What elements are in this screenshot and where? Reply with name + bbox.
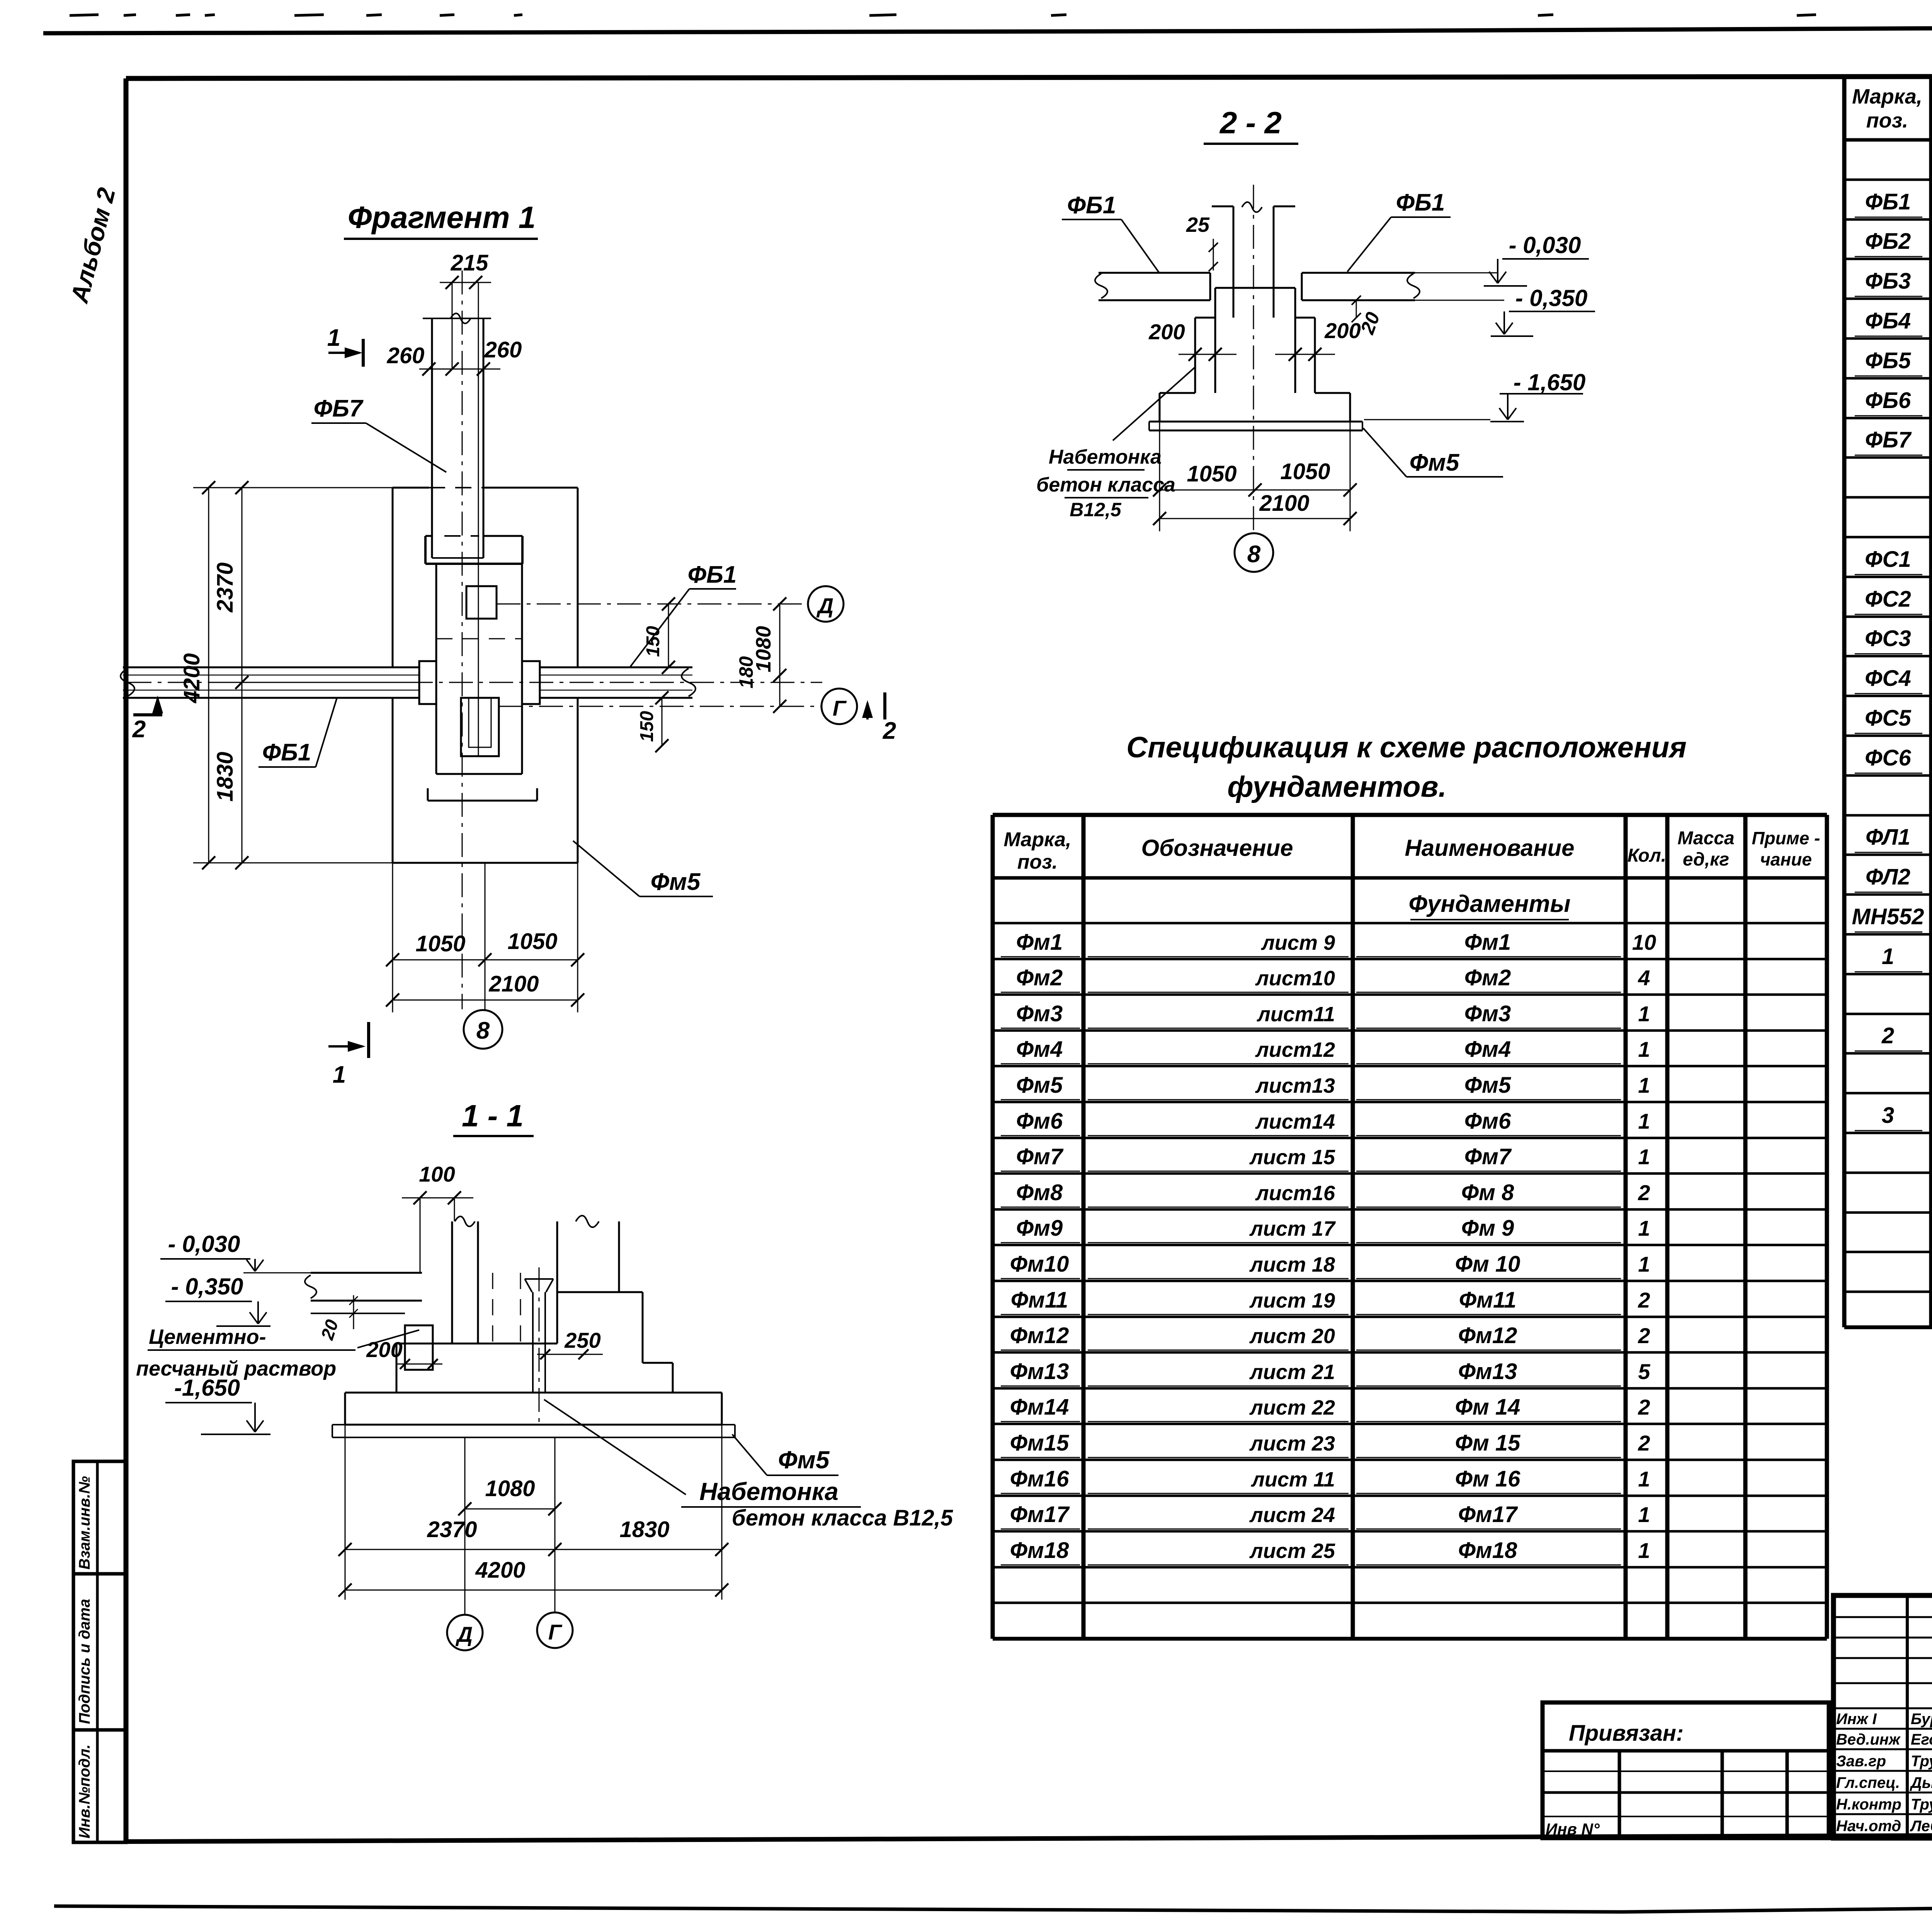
svg-text:Фм6: Фм6 — [1016, 1109, 1063, 1134]
plan: center axes dash-dot — [128, 270, 822, 1009]
privyazan box — [1543, 1702, 1829, 1838]
svg-text:Вед.инж: Вед.инж — [1836, 1731, 1901, 1748]
svg-text:Спецификация к схеме распо: Спецификация к схеме расположения — [1126, 731, 1687, 764]
svg-text:1: 1 — [327, 325, 340, 351]
svg-text:песчаный раствор: песчаный раствор — [136, 1357, 336, 1380]
svg-text:Егоров: Егоров — [1911, 1731, 1932, 1748]
plan: dim 215 — [440, 250, 491, 289]
svg-text:Фм17: Фм17 — [1458, 1502, 1518, 1527]
svg-text:Фм8: Фм8 — [1016, 1180, 1063, 1205]
svg-text:Фм2: Фм2 — [1016, 965, 1063, 990]
svg-text:260: 260 — [387, 343, 425, 368]
svg-text:ФБ4: ФБ4 — [1865, 308, 1911, 333]
svg-text:- 0,030: - 0,030 — [168, 1231, 240, 1257]
svg-text:ФБ1: ФБ1 — [262, 739, 311, 766]
svg-text:Фм 15: Фм 15 — [1455, 1430, 1521, 1456]
svg-text:Трубникова: Трубникова — [1911, 1753, 1932, 1770]
svg-text:лист 23: лист 23 — [1249, 1432, 1335, 1455]
svg-text:1: 1 — [1638, 1538, 1650, 1563]
svg-text:Фм 8: Фм 8 — [1461, 1180, 1514, 1205]
svg-text:180: 180 — [735, 656, 757, 689]
svg-text:Подпись и дата: Подпись и дата — [76, 1599, 93, 1724]
svg-text:260: 260 — [484, 337, 522, 362]
svg-text:Фм 14: Фм 14 — [1455, 1395, 1520, 1420]
section 2-2 level -1.650 — [1364, 369, 1585, 422]
svg-text:ед,кг: ед,кг — [1683, 849, 1729, 870]
svg-text:200: 200 — [366, 1337, 402, 1362]
svg-text:поз.: поз. — [1017, 851, 1058, 873]
svg-text:100: 100 — [419, 1162, 455, 1186]
svg-text:5: 5 — [1638, 1359, 1650, 1384]
svg-text:Фм12: Фм12 — [1458, 1323, 1517, 1348]
section 1-1 base slab — [345, 1393, 722, 1425]
svg-text:Набетонка: Набетонка — [1049, 446, 1162, 468]
svg-text:4200: 4200 — [475, 1558, 525, 1583]
left margin stamp strip boxes — [73, 1461, 126, 1842]
svg-text:2: 2 — [1638, 1431, 1650, 1455]
svg-text:Фм1: Фм1 — [1016, 930, 1063, 955]
svg-text:1050: 1050 — [1280, 459, 1330, 484]
svg-text:Лебедев: Лебедев — [1910, 1818, 1932, 1835]
middle table row: Фундаменты — [1408, 891, 1570, 920]
svg-text:бетон класса: бетон класса — [1036, 474, 1175, 496]
svg-text:ФС6: ФС6 — [1865, 745, 1911, 770]
section 2-2 dims 200 200 — [1148, 318, 1361, 361]
svg-text:Набетонка: Набетонка — [699, 1478, 838, 1505]
section 2-2 label Фм5 — [1363, 428, 1503, 477]
plan: column pier — [428, 564, 537, 801]
svg-text:ФБ6: ФБ6 — [1865, 388, 1911, 413]
svg-text:Фм 16: Фм 16 — [1455, 1466, 1521, 1492]
section 2-2 axis circle 8 — [1235, 533, 1273, 572]
section 2-2 label ФБ1 right — [1347, 189, 1451, 272]
section 2-2 column beams ФБ1 — [1212, 185, 1295, 533]
svg-text:Фм3: Фм3 — [1016, 1001, 1063, 1026]
svg-text:1: 1 — [1638, 1467, 1650, 1491]
right specification table grid — [1844, 76, 1932, 1345]
middle table grid — [993, 815, 1827, 1639]
section 1-1 title — [453, 1099, 534, 1136]
title block frame — [1833, 1595, 1932, 1838]
svg-text:2: 2 — [883, 718, 896, 744]
plan: section mark 2 left — [132, 696, 163, 743]
svg-text:Н.контр: Н.контр — [1836, 1796, 1901, 1813]
svg-text:Инв N°: Инв N° — [1546, 1820, 1600, 1838]
section 2-2 stepped foundation — [1160, 288, 1350, 422]
svg-text:2: 2 — [132, 716, 146, 743]
svg-text:фундаментов.: фундаментов. — [1227, 770, 1446, 803]
svg-text:10: 10 — [1632, 930, 1656, 954]
svg-text:1: 1 — [1638, 1216, 1650, 1240]
svg-text:1050: 1050 — [507, 929, 557, 954]
svg-text:20: 20 — [317, 1317, 342, 1342]
svg-text:Инж I: Инж I — [1836, 1711, 1877, 1728]
svg-text:Цементно-: Цементно- — [149, 1325, 266, 1349]
svg-text:250: 250 — [564, 1328, 600, 1352]
svg-text:200: 200 — [1148, 320, 1185, 344]
svg-text:Фм13: Фм13 — [1458, 1359, 1517, 1384]
section 2-2 level -0.030 — [1415, 232, 1589, 286]
svg-text:ФС2: ФС2 — [1865, 587, 1911, 612]
plan: bottom dims 1050 1050 2100 — [386, 863, 584, 1012]
svg-text:ФБ2: ФБ2 — [1865, 229, 1911, 254]
svg-text:лист 20: лист 20 — [1249, 1325, 1335, 1348]
svg-text:лист14: лист14 — [1255, 1110, 1335, 1133]
svg-text:Марка,: Марка, — [1852, 85, 1922, 108]
plan: label ФБ1 left — [259, 698, 337, 767]
section 1-1 dim 100 — [402, 1162, 473, 1273]
plan title Фрагмент 1 — [344, 200, 538, 239]
section 2-2 label nabetonka — [1036, 367, 1195, 520]
svg-text:2: 2 — [1638, 1180, 1650, 1205]
section 1-1 column ФБ7 — [452, 1216, 520, 1344]
svg-text:215: 215 — [451, 250, 489, 276]
svg-text:ФЛ2: ФЛ2 — [1866, 864, 1910, 889]
section 1-1 foundation body — [396, 1292, 673, 1393]
plan: dims 260 260 — [387, 337, 522, 376]
svg-text:ФБ5: ФБ5 — [1865, 348, 1911, 373]
svg-text:лист 24: лист 24 — [1249, 1503, 1335, 1527]
svg-text:2 - 2: 2 - 2 — [1219, 105, 1282, 140]
svg-text:1: 1 — [1638, 1109, 1650, 1133]
svg-text:1050: 1050 — [415, 931, 465, 956]
svg-text:Фрагмент 1: Фрагмент 1 — [348, 200, 536, 235]
svg-text:1: 1 — [1638, 1145, 1650, 1169]
svg-text:лист 11: лист 11 — [1250, 1468, 1335, 1491]
svg-text:Г: Г — [548, 1620, 563, 1644]
svg-text:Фм18: Фм18 — [1458, 1538, 1517, 1563]
svg-text:ФС4: ФС4 — [1865, 666, 1911, 691]
section 1-1 cement mortar label — [136, 1325, 419, 1380]
scan bottom edge line — [54, 1900, 1932, 1912]
svg-text:В12,5: В12,5 — [1070, 499, 1122, 520]
svg-text:2: 2 — [1881, 1023, 1894, 1048]
svg-text:Фм15: Фм15 — [1010, 1430, 1069, 1456]
svg-text:лист 22: лист 22 — [1249, 1396, 1335, 1419]
svg-text:Гл.спец.: Гл.спец. — [1836, 1774, 1900, 1791]
svg-text:Фм 9: Фм 9 — [1461, 1216, 1514, 1241]
svg-text:8: 8 — [476, 1017, 490, 1044]
svg-text:200: 200 — [1324, 318, 1361, 343]
svg-text:Инв.№подл.: Инв.№подл. — [76, 1744, 93, 1838]
svg-text:Фм9: Фм9 — [1016, 1216, 1063, 1241]
svg-text:Масса: Масса — [1677, 828, 1734, 849]
svg-text:Фм3: Фм3 — [1464, 1001, 1511, 1026]
section 1-1 axis circles Д Г — [447, 1612, 573, 1650]
svg-text:Бурмистрова: Бурмистрова — [1911, 1711, 1932, 1728]
section 1-1 levels left — [160, 1231, 311, 1434]
plan: beam ФБ1 horizontal — [121, 667, 696, 698]
svg-text:Приме -: Приме - — [1752, 828, 1820, 848]
svg-text:150: 150 — [643, 626, 663, 657]
svg-text:лист13: лист13 — [1255, 1074, 1335, 1097]
svg-text:МН552: МН552 — [1852, 904, 1924, 929]
svg-text:Трубникова: Трубникова — [1911, 1796, 1932, 1813]
svg-text:3: 3 — [1882, 1103, 1894, 1128]
svg-text:Фм 10: Фм 10 — [1455, 1252, 1520, 1277]
svg-text:2: 2 — [1638, 1395, 1650, 1419]
svg-text:25: 25 — [1186, 213, 1210, 236]
svg-text:2370: 2370 — [213, 562, 238, 612]
svg-text:Фм5: Фм5 — [1016, 1073, 1063, 1098]
section 1-1 column ФБ1 — [557, 1216, 619, 1292]
svg-text:Фм13: Фм13 — [1010, 1359, 1069, 1384]
svg-text:лист11: лист11 — [1256, 1003, 1335, 1026]
plan: label ФБ7 — [311, 395, 446, 472]
scan top edge line — [43, 15, 1932, 33]
svg-text:ФБ3: ФБ3 — [1865, 269, 1911, 294]
svg-text:лист12: лист12 — [1255, 1038, 1335, 1061]
svg-text:ФБ1: ФБ1 — [688, 561, 737, 588]
svg-text:лист16: лист16 — [1255, 1182, 1335, 1205]
svg-text:1: 1 — [1638, 1037, 1650, 1061]
svg-text:Фм7: Фм7 — [1464, 1144, 1512, 1169]
svg-text:Фм4: Фм4 — [1464, 1037, 1511, 1062]
svg-text:ФС5: ФС5 — [1865, 706, 1911, 731]
svg-text:- 1,650: - 1,650 — [1514, 369, 1586, 395]
svg-text:Альбом 2: Альбом 2 — [65, 185, 121, 306]
section 2-2 dim 20 — [1352, 296, 1384, 337]
section 1-1 dim 200 — [366, 1337, 442, 1369]
svg-text:150: 150 — [637, 711, 657, 742]
svg-text:лист 17: лист 17 — [1249, 1217, 1336, 1240]
svg-text:лист 19: лист 19 — [1249, 1289, 1335, 1312]
svg-text:Фм4: Фм4 — [1016, 1037, 1063, 1062]
svg-text:ФБ1: ФБ1 — [1865, 189, 1911, 214]
svg-text:Фм14: Фм14 — [1010, 1395, 1069, 1420]
section 2-2 label ФБ1 left — [1062, 192, 1159, 273]
section 2-2 bottom dims 1050 1050 2100 — [1153, 422, 1357, 531]
middle table row entries — [1001, 930, 1656, 1565]
section 2-2 floor slab — [1095, 273, 1420, 300]
svg-text:1: 1 — [1638, 1502, 1650, 1527]
section 1-1 label Фм5 — [732, 1434, 838, 1475]
svg-text:Фм16: Фм16 — [1010, 1466, 1069, 1492]
svg-text:1830: 1830 — [619, 1517, 669, 1542]
svg-text:ФБ7: ФБ7 — [1865, 427, 1912, 452]
svg-text:1080: 1080 — [485, 1476, 535, 1501]
svg-text:ФБ1: ФБ1 — [1396, 189, 1445, 216]
svg-text:Марка,: Марка, — [1004, 828, 1071, 851]
svg-text:Фм10: Фм10 — [1010, 1252, 1069, 1277]
section 2-2 nabetonka layer — [1149, 422, 1362, 430]
svg-text:Фм5: Фм5 — [651, 869, 701, 895]
svg-text:Г: Г — [833, 696, 847, 720]
section 1-1 label nabetonka — [544, 1400, 953, 1531]
plan: bearing plates — [419, 661, 540, 704]
svg-text:Фм6: Фм6 — [1464, 1109, 1511, 1134]
svg-text:- 0,350: - 0,350 — [171, 1274, 243, 1299]
svg-text:1: 1 — [1882, 944, 1894, 969]
section 1-1 mortar block — [405, 1325, 433, 1370]
svg-text:ФС3: ФС3 — [1865, 626, 1911, 651]
section 1-1 nabetonka layer — [332, 1425, 735, 1437]
svg-text:1: 1 — [1638, 1252, 1650, 1276]
middle table title — [1126, 731, 1687, 803]
svg-text:ФБ7: ФБ7 — [314, 395, 364, 422]
svg-text:Фм12: Фм12 — [1010, 1323, 1069, 1348]
section 2-2 level -0.350 — [1415, 285, 1595, 336]
svg-text:Фм1: Фм1 — [1464, 930, 1511, 955]
svg-text:ФС1: ФС1 — [1865, 547, 1911, 572]
plan: beam ФБ7 vertical — [423, 282, 491, 755]
svg-text:- 0,030: - 0,030 — [1509, 232, 1581, 258]
svg-text:1830: 1830 — [213, 752, 238, 801]
svg-text:2: 2 — [1638, 1288, 1650, 1312]
right table header texts — [1852, 85, 1932, 132]
plan: outer foundation Фм5 rectangle — [393, 488, 578, 863]
svg-text:Фм5: Фм5 — [1410, 449, 1460, 476]
svg-text:Д: Д — [456, 1622, 473, 1646]
svg-text:Зав.гр: Зав.гр — [1836, 1753, 1886, 1770]
plan: left dims 4200 2370 1830 — [179, 481, 419, 869]
svg-text:- 0,350: - 0,350 — [1515, 285, 1588, 311]
svg-text:1 - 1: 1 - 1 — [462, 1099, 524, 1133]
svg-text:Нач.отд: Нач.отд — [1836, 1818, 1901, 1835]
svg-text:лист 18: лист 18 — [1249, 1253, 1335, 1276]
svg-text:поз.: поз. — [1866, 109, 1908, 132]
svg-text:4: 4 — [1638, 966, 1650, 990]
svg-text:1: 1 — [333, 1061, 346, 1088]
svg-text:Фм11: Фм11 — [1011, 1287, 1068, 1313]
svg-text:8: 8 — [1247, 541, 1261, 568]
svg-text:1: 1 — [1638, 1002, 1650, 1026]
svg-text:лист 15: лист 15 — [1249, 1146, 1335, 1169]
svg-text:2100: 2100 — [1259, 491, 1309, 516]
section 2-2 title — [1204, 105, 1298, 144]
svg-text:Дыба: Дыба — [1910, 1774, 1932, 1791]
plan: slot opening below — [461, 698, 499, 756]
svg-text:2: 2 — [1638, 1323, 1650, 1348]
title block signature rows — [1836, 1711, 1932, 1835]
svg-text:лист10: лист10 — [1255, 967, 1335, 990]
plan: section mark 1 bottom — [328, 1022, 369, 1088]
plan: label Фм5 — [573, 841, 713, 896]
middle table header texts — [1004, 828, 1820, 873]
section 1-1 bottom dims 1080 2370 1830 4200 — [338, 1425, 728, 1615]
svg-text:Д: Д — [816, 594, 833, 618]
section 2-2 dim 25 — [1186, 213, 1218, 271]
svg-text:Фундаменты: Фундаменты — [1408, 891, 1570, 917]
svg-text:1050: 1050 — [1187, 461, 1236, 486]
svg-text:Наименование: Наименование — [1405, 835, 1574, 861]
svg-text:Фм2: Фм2 — [1464, 965, 1511, 990]
svg-text:бетон класса В12,5: бетон класса В12,5 — [732, 1505, 953, 1531]
svg-text:1: 1 — [1638, 1073, 1650, 1097]
svg-text:Взам.инв.№: Взам.инв.№ — [76, 1476, 93, 1570]
svg-text:Привязан:: Привязан: — [1569, 1721, 1684, 1746]
svg-text:Фм11: Фм11 — [1459, 1287, 1516, 1313]
svg-text:лист 25: лист 25 — [1249, 1539, 1335, 1563]
svg-text:ФЛ1: ФЛ1 — [1866, 825, 1910, 850]
plan: anchor plate — [466, 586, 497, 619]
plan: section mark 2 right — [862, 692, 896, 744]
svg-text:Фм5: Фм5 — [1464, 1073, 1511, 1098]
svg-text:Кол.: Кол. — [1628, 845, 1666, 866]
svg-text:2370: 2370 — [427, 1517, 477, 1542]
plan: right dims 1080 180 150 150 — [637, 597, 786, 752]
plan: axis circles Д and Г — [808, 586, 857, 724]
section 1-1 anchor bolt — [525, 1267, 553, 1426]
plan: label ФБ1 top right — [630, 561, 736, 667]
svg-text:Фм5: Фм5 — [778, 1446, 830, 1474]
plan: section mark 1 top — [327, 325, 363, 367]
svg-text:Фм18: Фм18 — [1010, 1538, 1069, 1563]
section 1-1 dim 20 small — [317, 1295, 358, 1342]
svg-text:чание: чание — [1760, 849, 1812, 869]
svg-text:лист 21: лист 21 — [1249, 1361, 1335, 1384]
plan: axis circle 8 — [464, 1010, 502, 1049]
right table row entries — [1852, 149, 1932, 1289]
svg-text:Фм17: Фм17 — [1010, 1502, 1070, 1527]
svg-text:4200: 4200 — [179, 653, 204, 703]
section 1-1 dim 250 — [537, 1328, 603, 1359]
svg-text:Фм7: Фм7 — [1016, 1144, 1064, 1169]
section 1-1 floor slab — [305, 1273, 422, 1313]
plan: socket collar — [425, 536, 522, 564]
svg-text:2100: 2100 — [488, 971, 539, 997]
svg-text:лист 9: лист 9 — [1260, 931, 1335, 954]
svg-text:Обозначение: Обозначение — [1141, 835, 1293, 861]
svg-text:ФБ1: ФБ1 — [1067, 192, 1116, 219]
